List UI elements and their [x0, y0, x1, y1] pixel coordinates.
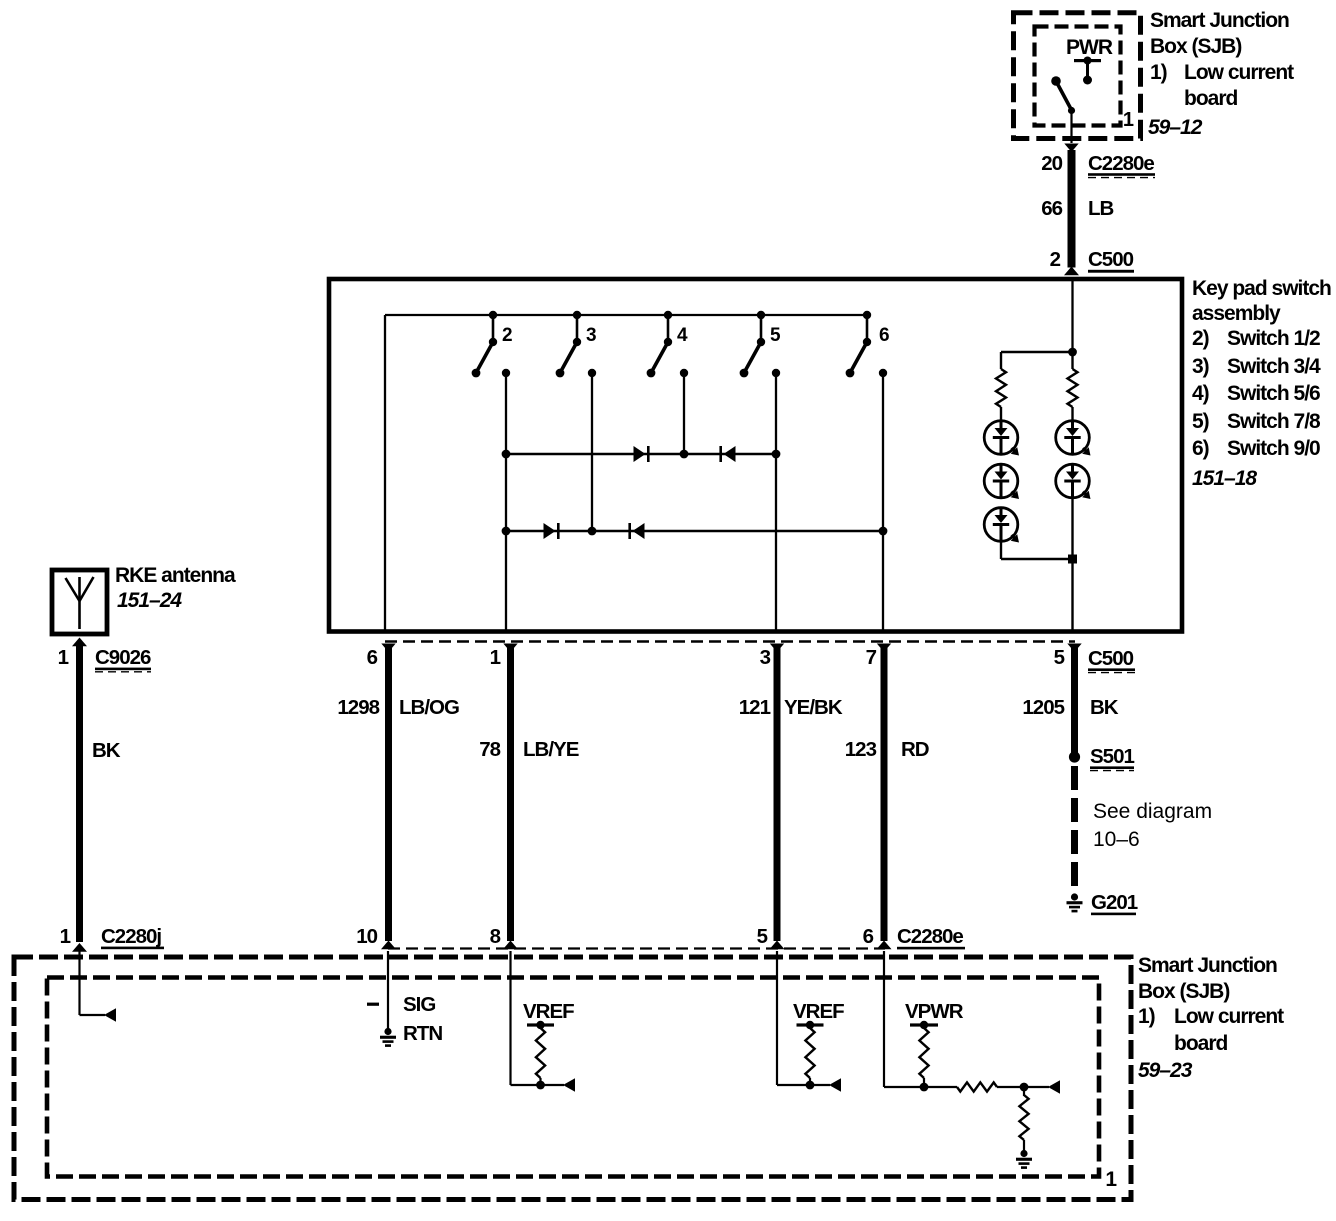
terminal arrow (VPWR circuit continues): [1048, 1080, 1060, 1094]
svg-text:Low current: Low current: [1184, 61, 1294, 84]
svg-text:5: 5: [1054, 646, 1065, 669]
svg-text:1: 1: [1123, 109, 1134, 131]
svg-text:3): 3): [1192, 355, 1209, 378]
svg-text:5: 5: [757, 925, 768, 948]
svg-text:6: 6: [863, 925, 874, 948]
arrowhead up into RKE antenna pin 1: [72, 638, 87, 647]
smart junction box SJB (bottom) outer dashed box: [14, 957, 1131, 1200]
svg-text:121: 121: [739, 696, 771, 719]
svg-text:RD: RD: [901, 738, 929, 761]
wire SIG RTN inside SJB: [387, 951, 389, 1030]
svg-text:C9026: C9026: [95, 646, 151, 669]
switch 5 (keypad): [740, 311, 766, 378]
svg-text:2: 2: [1050, 248, 1061, 271]
ground symbol (VPWR pull-down): [1020, 1150, 1027, 1157]
svg-text:7: 7: [866, 646, 877, 669]
switch blade inside SJB: [1051, 76, 1061, 86]
keypad internal supply bus wire: [385, 314, 867, 316]
svg-text:1: 1: [490, 646, 501, 669]
svg-text:LB/OG: LB/OG: [399, 696, 459, 719]
arrowhead down below C500 at LED wire: [1067, 644, 1081, 653]
svg-text:Switch 3/4: Switch 3/4: [1227, 355, 1321, 378]
svg-text:YE/BK: YE/BK: [784, 696, 843, 719]
switch 6 output terminal and wire: [879, 369, 887, 631]
switch 4 output terminal and wire: [680, 369, 688, 454]
svg-text:Smart Junction: Smart Junction: [1150, 9, 1289, 32]
resistor VPWR vertical: [919, 1028, 928, 1078]
splice S501: [1069, 751, 1080, 762]
svg-text:6): 6): [1192, 437, 1209, 460]
svg-text:5): 5): [1192, 410, 1209, 433]
resistor horizontal (VPWR branch): [957, 1082, 997, 1091]
svg-text:C2280e: C2280e: [1088, 152, 1154, 175]
VPWR source bar: [910, 1023, 938, 1026]
VREF source bar (pin 8): [527, 1023, 554, 1026]
junction VREF resistor to wire (pin 8): [536, 1081, 545, 1090]
switch 3 (keypad): [556, 311, 582, 378]
diode row wire (lower): [506, 530, 883, 533]
svg-text:LB: LB: [1088, 197, 1114, 220]
junction sw3 column / lower row: [588, 527, 597, 536]
wire BK (antenna) thick segment: [76, 645, 83, 942]
smart junction box SJB (bottom) low current board inner dashed box: [47, 978, 1099, 1177]
svg-text:S501: S501: [1090, 745, 1134, 768]
arrowhead down at C2280e pin 20: [1064, 144, 1078, 153]
arrowhead down below C500 at x=510.5: [503, 644, 517, 653]
wire VREF(8) inside SJB: [511, 951, 565, 1085]
wire C500 pin 2 into LED section: [1071, 281, 1073, 352]
svg-text:20: 20: [1041, 152, 1062, 175]
svg-text:assembly: assembly: [1192, 302, 1281, 325]
svg-text:See diagram: See diagram: [1093, 800, 1212, 823]
svg-text:board: board: [1184, 87, 1238, 110]
LED L3: [984, 508, 1018, 542]
arrowhead up above C2280e at x=388.5: [381, 941, 396, 950]
wire 66 LB thick segment: [1068, 150, 1076, 268]
junction sw5 column / upper row: [772, 450, 781, 459]
svg-text:G201: G201: [1091, 891, 1138, 914]
svg-text:8: 8: [490, 925, 501, 948]
svg-text:Box (SJB): Box (SJB): [1138, 980, 1229, 1003]
arrowhead up above C2280e at x=884: [877, 941, 892, 950]
connector C500 dashed line: [385, 640, 1075, 642]
svg-text:C500: C500: [1088, 248, 1134, 271]
svg-text:1: 1: [60, 925, 71, 948]
svg-text:59–23: 59–23: [1138, 1059, 1193, 1082]
switch 5 output terminal and wire: [772, 369, 780, 631]
svg-text:Smart Junction: Smart Junction: [1138, 954, 1277, 977]
arrowhead up above C2280e at x=510.5: [503, 941, 518, 950]
svg-text:3: 3: [586, 325, 596, 346]
svg-text:151–24: 151–24: [117, 589, 182, 612]
wire 1205 BK thick segment: [1071, 648, 1078, 755]
svg-text:Switch 9/0: Switch 9/0: [1227, 437, 1320, 460]
ground symbol SIG RTN: [384, 1028, 391, 1035]
junction LED branch top: [1068, 348, 1077, 357]
svg-text:BK: BK: [92, 739, 121, 762]
svg-text:RTN: RTN: [403, 1022, 442, 1045]
smart junction box SJB (top) outer dashed box: [1014, 13, 1141, 139]
svg-text:LB/YE: LB/YE: [523, 738, 579, 761]
smart junction box SJB (top) low current board inner dashed box: [1035, 27, 1121, 126]
junction VPWR resistor to wire: [920, 1083, 929, 1092]
power feed PWR symbol: [1074, 59, 1101, 62]
svg-text:board: board: [1174, 1032, 1228, 1055]
keypad left vertical wire to pin 6: [384, 315, 386, 631]
wire LED branches top link: [1001, 351, 1073, 354]
arrowhead down below C500 at x=388.5: [381, 644, 395, 653]
wire 121 YE/BK thick segment: [774, 648, 781, 941]
junction sw6 column / lower row: [879, 527, 888, 536]
junction sw2 column / lower row: [502, 527, 511, 536]
svg-text:10–6: 10–6: [1093, 828, 1140, 851]
arrowhead down below C500 at x=884: [877, 644, 891, 653]
switch 4 (keypad): [647, 311, 673, 378]
resistor left LED branch: [996, 369, 1006, 407]
svg-text:10: 10: [356, 925, 377, 948]
svg-text:Switch 7/8: Switch 7/8: [1227, 410, 1321, 433]
resistor right LED branch: [1068, 369, 1078, 407]
svg-text:Low current: Low current: [1174, 1005, 1284, 1028]
wire 1298 LB/OG thick segment: [385, 648, 392, 941]
LED L1: [984, 421, 1018, 455]
LED L2: [984, 464, 1018, 498]
svg-text:VREF: VREF: [523, 1000, 574, 1023]
junction sw2 column / upper row: [502, 450, 511, 459]
svg-text:RKE antenna: RKE antenna: [115, 564, 236, 587]
LED R2: [1056, 464, 1090, 498]
svg-text:1: 1: [1105, 1168, 1117, 1191]
svg-text:VPWR: VPWR: [905, 1000, 964, 1023]
svg-text:2: 2: [502, 325, 512, 346]
svg-text:59–12: 59–12: [1148, 116, 1203, 139]
wire 123 RD thick segment: [881, 648, 888, 941]
svg-text:SIG: SIG: [403, 993, 435, 1016]
svg-text:Switch 1/2: Switch 1/2: [1227, 327, 1320, 350]
connector C2280e dashed line (bottom): [388, 947, 885, 949]
svg-text:C2280e: C2280e: [897, 925, 963, 948]
svg-text:3: 3: [760, 646, 771, 669]
wire PWR switch to connector C2280e pin 20: [1070, 110, 1072, 143]
svg-text:1205: 1205: [1022, 696, 1064, 719]
junction sw4 column / upper row: [680, 450, 689, 459]
terminal arrow (VREF 8 circuit continues): [563, 1078, 575, 1092]
svg-text:C2280j: C2280j: [101, 925, 161, 948]
arrowhead down below C500 at x=777: [770, 644, 784, 653]
svg-text:BK: BK: [1090, 696, 1119, 719]
svg-text:5: 5: [770, 325, 781, 346]
terminal arrow (VREF 5 circuit continues): [829, 1078, 841, 1092]
diode D1 (upper row, pointing right): [634, 446, 646, 462]
resistor VREF (pin 8): [536, 1028, 545, 1078]
svg-text:78: 78: [479, 738, 500, 761]
left LED branch wire: [1000, 352, 1002, 369]
wire VREF(5) inside SJB: [777, 951, 830, 1085]
wire 1205 BK dashed continuation: [1071, 766, 1078, 890]
svg-text:1): 1): [1150, 61, 1167, 84]
resistor VREF (pin 5): [805, 1028, 814, 1078]
svg-text:VREF: VREF: [793, 1000, 844, 1023]
diode row wire (upper): [506, 453, 776, 456]
svg-text:1298: 1298: [337, 696, 379, 719]
svg-text:1): 1): [1138, 1005, 1155, 1028]
wire LED bottom to C500 pin 5: [1071, 559, 1073, 631]
arrowhead up above C2280e at x=777: [770, 941, 785, 950]
wire VPWR inside SJB: [884, 951, 957, 1087]
junction pull-down branch: [1020, 1083, 1029, 1092]
svg-text:Key pad switch: Key pad switch: [1192, 277, 1331, 300]
resistor pull-down vertical: [1023, 1087, 1025, 1096]
VREF source bar (pin 5): [797, 1023, 824, 1026]
svg-text:PWR: PWR: [1066, 36, 1113, 59]
junction LED branch bottom: [1068, 555, 1077, 564]
svg-text:123: 123: [845, 738, 877, 761]
diode D2 (upper row, pointing left): [724, 446, 736, 462]
switch 3 output terminal and wire: [588, 369, 596, 531]
key pad switch assembly box: [329, 279, 1182, 632]
minus sign at SIG RTN: [367, 1003, 379, 1006]
svg-text:1: 1: [58, 646, 69, 669]
svg-text:Switch 5/6: Switch 5/6: [1227, 382, 1320, 405]
wire 78 LB/YE thick segment: [507, 648, 514, 941]
RKE antenna symbol: [66, 577, 94, 629]
svg-text:151–18: 151–18: [1192, 467, 1257, 490]
wire LED branches bottom link: [1001, 558, 1073, 561]
svg-text:6: 6: [367, 646, 378, 669]
switch 2 output terminal and wire: [502, 369, 510, 631]
svg-text:C500: C500: [1088, 647, 1134, 670]
right LED branch wire: [1071, 352, 1073, 369]
arrowhead up above C2280j: [72, 943, 87, 952]
arrowhead up into keypad C500 pin 2: [1064, 267, 1079, 276]
junction VREF resistor to wire (pin 5): [806, 1081, 815, 1090]
svg-text:2): 2): [1192, 327, 1209, 350]
switch 6 (keypad): [846, 311, 872, 378]
svg-text:Box (SJB): Box (SJB): [1150, 35, 1241, 58]
ground G201: [1071, 893, 1078, 900]
terminal arrow (antenna circuit continues): [104, 1008, 116, 1022]
antenna wire inside SJB: [80, 951, 106, 1015]
diode D4 (lower row, pointing left): [633, 523, 645, 539]
svg-text:66: 66: [1041, 197, 1062, 220]
svg-text:6: 6: [879, 325, 889, 346]
RKE antenna box: [52, 570, 107, 634]
diode D3 (lower row, pointing right): [544, 523, 556, 539]
switch 2 (keypad): [472, 311, 498, 378]
svg-text:4: 4: [677, 325, 688, 346]
LED R1: [1056, 421, 1090, 455]
svg-text:4): 4): [1192, 382, 1209, 405]
